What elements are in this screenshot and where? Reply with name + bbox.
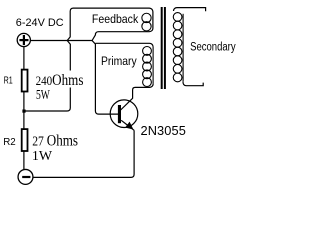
transformer feedback winding xyxy=(142,13,151,31)
wire R2 to minus terminal xyxy=(23,151,25,169)
transistor base bar xyxy=(118,105,121,123)
svg-text:R1: R1 xyxy=(4,74,13,86)
wire supply horizontal xyxy=(31,40,92,42)
transistor emitter lead xyxy=(121,120,134,130)
emitter arrowhead xyxy=(126,122,133,129)
wire primary top lead xyxy=(95,43,153,47)
transformer secondary winding top lead xyxy=(174,8,206,12)
minus sign xyxy=(22,176,30,178)
resistor R2 xyxy=(22,129,28,151)
svg-text:Primary: Primary xyxy=(101,56,137,69)
svg-text:5W: 5W xyxy=(36,87,50,102)
secondary winding bottom lead xyxy=(183,82,203,86)
primary winding connector xyxy=(152,47,154,84)
wire plus to R1 xyxy=(23,47,25,69)
transistor Q1 2N3055 circle xyxy=(110,100,138,128)
svg-text:Secondary: Secondary xyxy=(190,41,236,54)
wire bottom return xyxy=(33,130,134,177)
secondary winding coils xyxy=(173,13,182,82)
svg-text:6-24V DC: 6-24V DC xyxy=(16,17,64,29)
transistor collector lead xyxy=(121,84,154,110)
secondary winding connector xyxy=(182,14,184,82)
svg-text:Feedback: Feedback xyxy=(92,14,139,27)
node junction dot R1/R2 xyxy=(22,110,25,113)
resistor R1 xyxy=(22,70,28,92)
wire divider tap (kink down to R1/R2 junction) xyxy=(24,41,70,112)
svg-text:R2: R2 xyxy=(3,137,16,148)
transformer primary winding xyxy=(143,47,152,87)
wire feedback top lead with kink junction xyxy=(67,8,153,114)
battery negative terminal xyxy=(18,169,33,184)
svg-text:1W: 1W xyxy=(32,148,52,163)
white backing for value text xyxy=(50,71,87,88)
transformer core xyxy=(161,7,163,89)
battery positive terminal xyxy=(17,33,30,46)
plus sign xyxy=(19,35,28,45)
svg-text:2N3055: 2N3055 xyxy=(141,123,186,138)
wire R1 to R2 xyxy=(23,92,25,130)
